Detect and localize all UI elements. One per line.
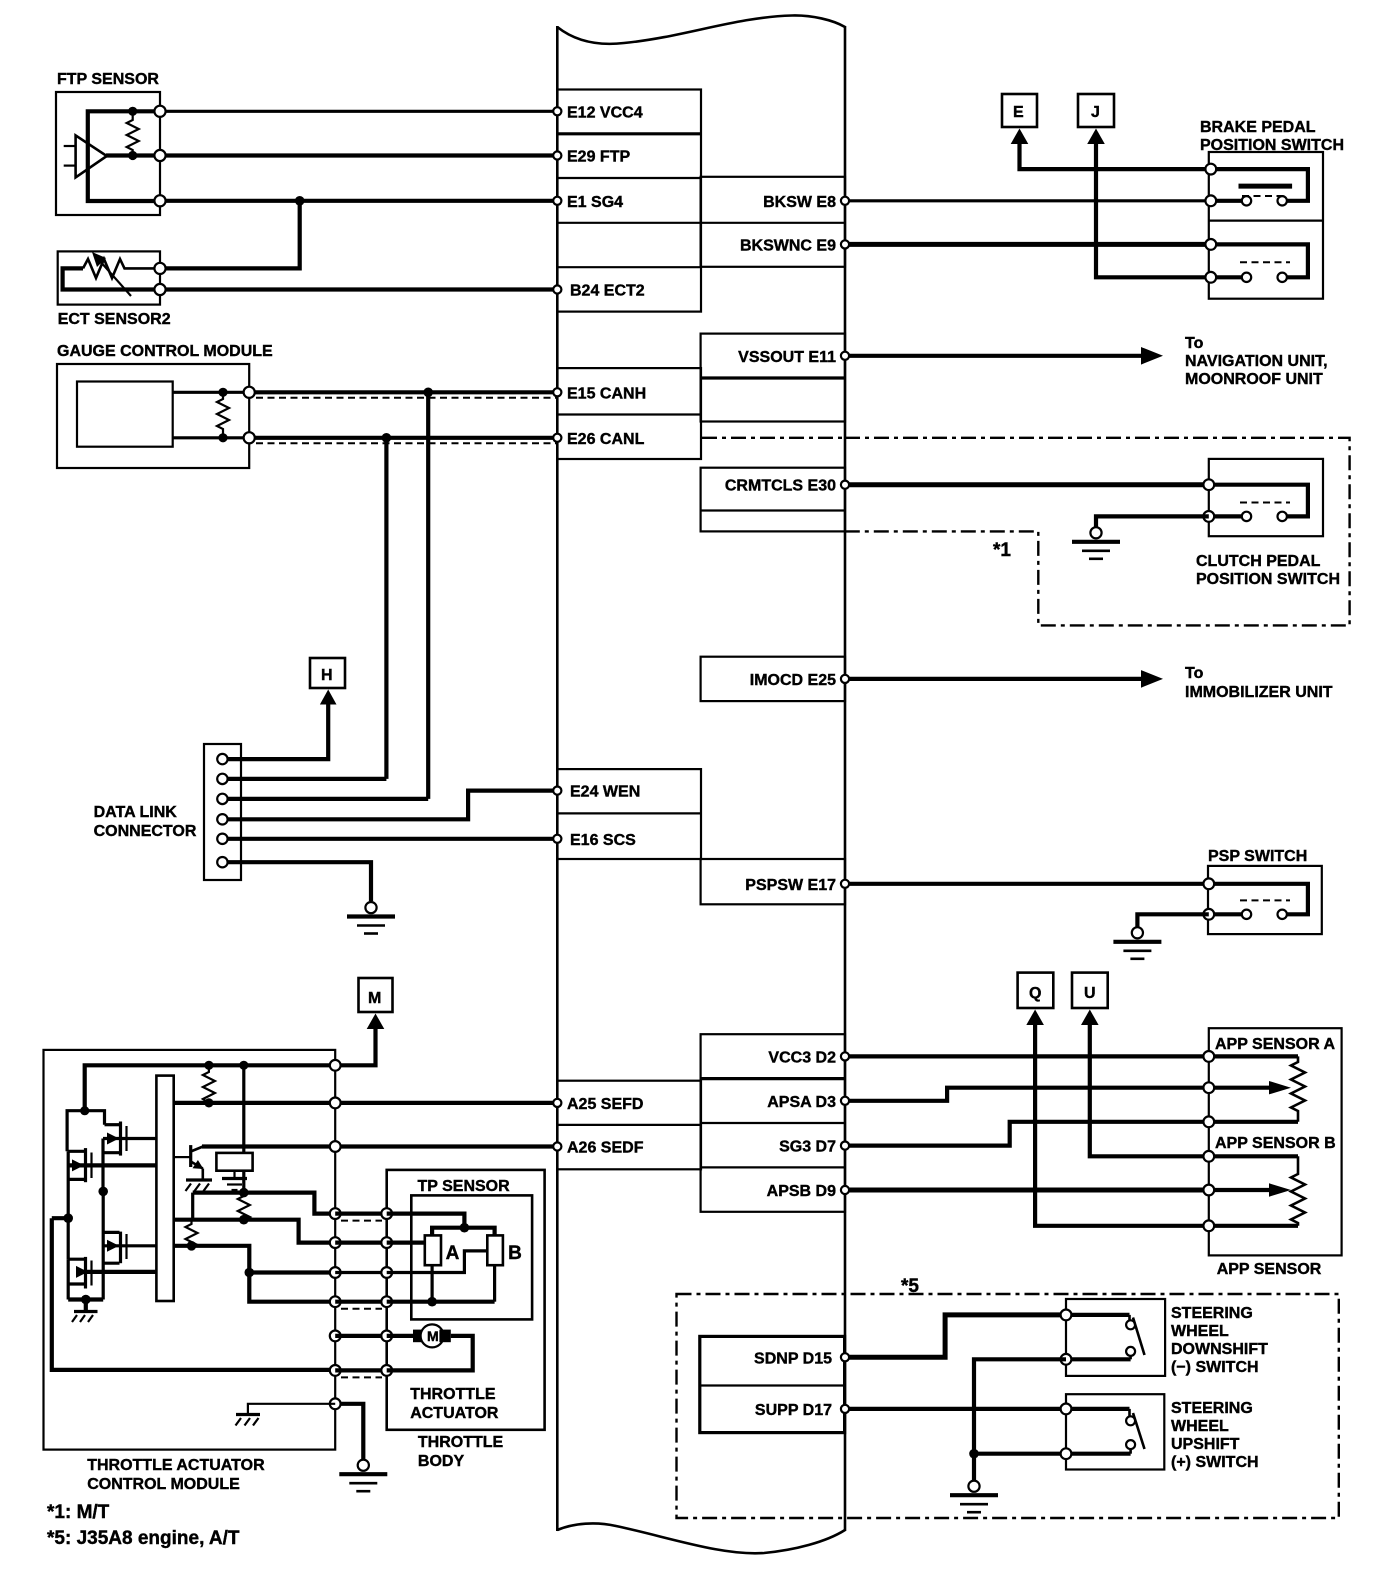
brake switch 2 contact wire: [1211, 275, 1242, 279]
junction dot upper loop: [80, 1106, 89, 1115]
svg-text:H: H: [321, 667, 333, 684]
wire CRMTCLS E30 to clutch switch: [845, 482, 1209, 487]
brake switch 2 dashed blade: [1240, 261, 1290, 263]
APP B supply wire: [1209, 1154, 1298, 1158]
ECM band torn top edge: [557, 15, 845, 43]
wire DLC pin5 to E16 SCS: [222, 837, 557, 841]
wire clutch switch pin2 to ground: [1096, 516, 1209, 527]
svg-text:GAUGE CONTROL MODULE: GAUGE CONTROL MODULE: [57, 343, 273, 360]
brake switch pin 4: [1205, 272, 1216, 283]
arrow up into E: [1011, 129, 1029, 145]
mosfet Q1 gate bar: [125, 1126, 127, 1151]
ECM band torn bottom edge: [557, 1523, 845, 1553]
wire DLC pin1 to H: [222, 702, 328, 759]
APP sensor pin A3: [1203, 1116, 1214, 1127]
PSP switch contact a: [1242, 910, 1251, 919]
arrow up into U: [1081, 1010, 1099, 1026]
dash-dot M/T option outline *1: [845, 438, 1350, 626]
clutch pedal switch box: [1209, 459, 1323, 536]
clutch switch contact a: [1242, 512, 1251, 521]
downshift switch wire pin1: [1066, 1313, 1130, 1317]
pot A bottom stub: [431, 1265, 434, 1302]
APP sensor pin B1: [1203, 1151, 1214, 1162]
wire ECT pin1 up to E1 SG4 node: [160, 201, 300, 269]
transistor Q5 base bar: [189, 1145, 192, 1167]
downshift contact bottom: [1126, 1347, 1135, 1356]
svg-text:(+) SWITCH: (+) SWITCH: [1171, 1454, 1259, 1471]
row separator blank/B24: [557, 266, 701, 268]
APP A low wire: [1209, 1120, 1298, 1124]
mosfet Q2 gate bar: [90, 1153, 92, 1179]
TACM edge pin 4: [330, 1208, 341, 1219]
ground symbol below throttle body: [358, 1460, 369, 1471]
svg-text:To: To: [1185, 665, 1204, 682]
wire E12 VCC4 to FTP pin 1: [160, 110, 557, 113]
stub to chassis ground: [84, 1300, 88, 1312]
junction dot R3 bottom: [187, 1241, 197, 1251]
brake switch divider: [1209, 220, 1323, 222]
wire TACM pin5 to TB pin2: [335, 1240, 387, 1244]
resistor R2: [238, 1193, 250, 1220]
junction dot W6/W7 branch: [245, 1268, 255, 1278]
arrowhead to immobilizer: [1141, 670, 1163, 688]
wire APSA D3 to APP sensor: [845, 1088, 1209, 1101]
wire W6 driver to TACM pin6: [174, 1246, 336, 1273]
DLC pin 1: [217, 754, 227, 764]
throttle motor wire plus: [387, 1334, 413, 1338]
ECM connector band left edge: [556, 26, 559, 1531]
TACM edge pin 8 motor plus: [330, 1331, 341, 1342]
chassis ground 777 under H-bridge: [74, 1310, 98, 1313]
gauge control module box: [57, 364, 249, 468]
mosfet Q2 source stub: [68, 1178, 84, 1181]
junction dot gauge resistor bottom: [218, 433, 227, 442]
dashed shield row1: [341, 1220, 382, 1222]
wire SUPP D17 to upshift switch: [845, 1407, 1066, 1411]
arrow up into M: [367, 1014, 385, 1030]
throttle actuator control module box: [44, 1050, 336, 1450]
svg-text:ECT SENSOR2: ECT SENSOR2: [58, 311, 171, 328]
svg-text:E1 SG4: E1 SG4: [567, 194, 623, 211]
mosfet Q1 source stub: [103, 1151, 120, 1154]
ECM pin circle E29: [553, 151, 561, 159]
upshift contact stub top: [1128, 1409, 1131, 1416]
TACM edge pin 3 A26: [330, 1141, 341, 1152]
ECM pin circle E24: [553, 787, 561, 795]
relay box: [216, 1153, 252, 1171]
ECM pin circle A25: [553, 1099, 561, 1107]
ECM right pin box group VSSOUT: [701, 334, 845, 422]
connector E box: [1002, 94, 1037, 127]
svg-text:BKSW E8: BKSW E8: [763, 194, 836, 211]
wire B24 ECT2 to ECT pin 2: [160, 287, 557, 291]
brake switch pin 2: [1205, 195, 1216, 206]
svg-text:CLUTCH PEDAL: CLUTCH PEDAL: [1196, 553, 1321, 570]
svg-text:IMMOBILIZER UNIT: IMMOBILIZER UNIT: [1185, 684, 1333, 701]
junction dot on E1 SG4 wire: [295, 196, 305, 206]
upshift contact stub bottom: [1129, 1449, 1132, 1454]
TB edge pin 3: [381, 1267, 392, 1278]
ECM pin circle PSPSW: [841, 880, 849, 888]
arrow up into Q: [1026, 1010, 1044, 1026]
PSP switch pin 1: [1203, 878, 1214, 889]
downshift pin 1: [1061, 1310, 1072, 1321]
row separator E29/E1: [557, 177, 701, 179]
ECM pin circle BKSWNC: [841, 240, 849, 248]
brake switch 1 contact a: [1242, 196, 1251, 205]
PSP switch pin 2: [1203, 909, 1214, 920]
ECM pin circle B24: [553, 285, 561, 293]
gauge internal CANH wire: [173, 391, 250, 394]
ECT internal loop wire: [63, 268, 160, 289]
ECM pin circle VSSOUT: [841, 352, 849, 360]
svg-text:E: E: [1013, 104, 1024, 121]
gauge pin 2: [244, 432, 255, 443]
svg-text:WHEEL: WHEEL: [1171, 1418, 1229, 1435]
junction dot ground rail: [81, 1295, 91, 1305]
row separator SG3/APSB: [701, 1166, 845, 1168]
ECT thermistor arrow: [99, 260, 131, 296]
mosfet Q3 source stub: [103, 1262, 119, 1265]
FTP internal supply wire: [88, 111, 160, 201]
wire APSB D9 to APP sensor: [845, 1188, 1209, 1193]
svg-text:FTP SENSOR: FTP SENSOR: [57, 71, 159, 88]
mosfet Q3 gate line to driver: [103, 1244, 156, 1247]
svg-text:NAVIGATION UNIT,: NAVIGATION UNIT,: [1185, 353, 1328, 370]
junction dot W4 relay branch: [239, 1188, 249, 1198]
svg-text:THROTTLE ACTUATOR: THROTTLE ACTUATOR: [87, 1457, 265, 1474]
wire relay box bottom to node W4: [242, 1171, 245, 1193]
wire W5 driver to TACM pin5: [174, 1220, 336, 1243]
wire PSPSW E17 to PSP switch: [845, 882, 1209, 886]
svg-text:MOONROOF UNIT: MOONROOF UNIT: [1185, 371, 1323, 388]
clutch switch internal wire: [1209, 485, 1308, 517]
mosfet Q1 gate line to driver: [103, 1137, 156, 1140]
dash-dot CANL continuation in band: [702, 437, 845, 439]
junction dot rail relay branch: [239, 1061, 248, 1070]
brake switch pin 1: [1205, 164, 1216, 175]
APP A wiper arrowhead: [1269, 1081, 1291, 1094]
ECM right pin box group VCC3/APSA/SG3/APSB: [701, 1034, 845, 1212]
upshift blade: [1133, 1413, 1145, 1449]
svg-text:M: M: [368, 990, 381, 1007]
junction dot gauge resistor top: [218, 388, 227, 397]
transistor Q5 collector: [191, 1147, 203, 1152]
clutch switch contact wire: [1209, 514, 1242, 518]
mosfet Q4 gate bar: [90, 1261, 92, 1286]
APP sensor pin B2: [1203, 1185, 1214, 1196]
FTP pin 1: [154, 106, 165, 117]
wire VSSOUT E11 to navigation: [845, 354, 1150, 358]
mosfet Q2 channel bar: [84, 1148, 87, 1182]
junction dot FTP resistor bottom: [128, 151, 137, 160]
svg-text:E12 VCC4: E12 VCC4: [567, 104, 643, 121]
TACM top supply rail: [85, 1065, 336, 1110]
svg-text:CONTROL MODULE: CONTROL MODULE: [87, 1476, 240, 1493]
mosfet Q3 drain stub: [103, 1231, 119, 1234]
ECT pin 1: [154, 263, 165, 274]
downshift pin 2: [1061, 1354, 1072, 1365]
wire SDNP D15 to downshift switch: [845, 1315, 1066, 1357]
junction dot row4 A: [427, 1297, 437, 1307]
svg-text:*1: *1: [993, 540, 1011, 561]
ECM left pin box group A25/A26: [557, 1081, 701, 1170]
data link connector box: [204, 744, 241, 880]
PSP switch box: [1208, 866, 1322, 934]
ECM pin circle E12: [553, 107, 561, 115]
TB edge pin 5: [381, 1331, 392, 1342]
ECM pin circle A26: [553, 1142, 561, 1150]
svg-text:ACTUATOR: ACTUATOR: [410, 1405, 499, 1422]
ground symbol below DLC: [365, 902, 376, 913]
downshift blade: [1133, 1318, 1145, 1356]
svg-text:*5: J35A8 engine, A/T: *5: J35A8 engine, A/T: [47, 1528, 240, 1549]
APP A wiper wire: [1209, 1086, 1272, 1090]
ECM connector band right edge: [844, 26, 847, 1531]
junction dot TP supply: [460, 1223, 470, 1233]
gauge terminating resistor: [217, 392, 229, 438]
vertical link W4-W5: [191, 1193, 194, 1220]
wire A25 SEFD from driver to ECM: [174, 1101, 558, 1105]
mosfet Q2 drain stub: [68, 1150, 84, 1153]
downshift contact stub bottom: [1129, 1356, 1132, 1359]
svg-text:E24 WEN: E24 WEN: [570, 784, 640, 801]
wire TACM pin6 to TB pin3: [335, 1271, 387, 1274]
brake switch 1 internal wire: [1211, 169, 1308, 201]
ECM pin circle BKSW: [841, 197, 849, 205]
FTP op-amp input stub 1: [64, 145, 76, 147]
svg-text:E26 CANL: E26 CANL: [567, 431, 645, 448]
ECM pin circle CRMTCLS: [841, 481, 849, 489]
upshift switch wire pin1: [1066, 1407, 1130, 1411]
connector Q box: [1018, 973, 1054, 1008]
TACM edge pin 10 ground: [330, 1398, 341, 1409]
row separator SDNP/SUPP: [700, 1384, 845, 1386]
svg-text:DATA LINK: DATA LINK: [94, 804, 178, 821]
APP sensor pin A1: [1203, 1051, 1214, 1062]
ground symbol steering switches: [968, 1481, 979, 1492]
APP A supply wire: [1209, 1054, 1298, 1058]
wire brake switch pin1 to E: [1020, 141, 1211, 169]
junction dot CANH tap: [423, 388, 433, 398]
wire BKSW E8 to brake switch: [845, 199, 1211, 202]
svg-text:TP SENSOR: TP SENSOR: [418, 1178, 511, 1195]
throttle body box: [387, 1170, 545, 1430]
clutch switch pin 1: [1203, 479, 1214, 490]
brake switch 1 dashed gap: [1242, 195, 1288, 197]
wire W7 to TACM pin7: [249, 1273, 335, 1302]
TB edge pin 2: [381, 1237, 392, 1248]
ECM pin circle E16: [553, 835, 561, 843]
mosfet Q1 channel bar: [119, 1122, 122, 1156]
svg-text:APP SENSOR B: APP SENSOR B: [1215, 1135, 1336, 1152]
ECM left pin box group E24/E16: [557, 769, 701, 859]
ECM right pin box group CRMTCLS: [701, 468, 845, 532]
junction dot FTP resistor top: [128, 107, 137, 116]
TACM ground rail: [68, 1297, 103, 1301]
wire TACM pin4 to TB pin1: [335, 1211, 387, 1215]
row separator APSA/SG3: [701, 1122, 845, 1124]
potentiometer B element: [487, 1235, 503, 1265]
APP sensor pin A2: [1203, 1082, 1214, 1093]
mosfet Q4 source stub: [68, 1282, 84, 1285]
left vertical wire to motor return: [52, 1218, 335, 1370]
mosfet Q4 arrow: [76, 1266, 88, 1278]
TB edge pin 1: [381, 1208, 392, 1219]
node wire Q1/Q3 vertical: [102, 1191, 105, 1299]
row separator A25/A26: [557, 1124, 701, 1126]
ECM pin circle SUPP: [841, 1405, 849, 1413]
FTP pin 2: [154, 150, 165, 161]
svg-text:A26 SEDF: A26 SEDF: [567, 1140, 644, 1157]
junction dot R2 bottom: [239, 1215, 249, 1225]
TACM edge pin 7: [330, 1296, 341, 1307]
connector H box: [310, 658, 345, 688]
mosfet Q3 channel bar: [119, 1232, 122, 1264]
TP supply wire from pin1: [387, 1214, 465, 1228]
svg-text:BODY: BODY: [418, 1453, 465, 1470]
svg-text:WHEEL: WHEEL: [1171, 1323, 1229, 1340]
wire E26 CANL to gauge pin 2: [249, 436, 557, 440]
PSP switch internal wire: [1209, 884, 1308, 915]
svg-text:APP SENSOR A: APP SENSOR A: [1215, 1036, 1335, 1053]
svg-text:DOWNSHIFT: DOWNSHIFT: [1171, 1341, 1268, 1358]
ECM pin circle E26: [553, 434, 561, 442]
gauge inner block: [77, 382, 173, 447]
wire TACM pin10 to throttle body ground: [335, 1404, 363, 1460]
pot B bottom stub: [493, 1265, 496, 1302]
body wire Q1 down to node: [101, 1139, 104, 1192]
FTP op-amp input stub 2: [64, 165, 76, 167]
ECM pin circle APSA: [841, 1097, 849, 1105]
svg-text:IMOCD E25: IMOCD E25: [750, 672, 836, 689]
upshift contact bottom: [1126, 1440, 1135, 1449]
steering downshift switch box: [1066, 1299, 1165, 1376]
earth ground under relay box: [222, 1177, 247, 1180]
svg-text:To: To: [1185, 335, 1204, 352]
dashed shield row4: [341, 1308, 382, 1310]
PSP switch dashed blade: [1240, 899, 1290, 901]
svg-text:A25 SEFD: A25 SEFD: [567, 1096, 643, 1113]
arrow up into H: [320, 690, 337, 705]
FTP internal output wire: [106, 153, 160, 157]
clutch switch dashed blade: [1240, 502, 1290, 504]
row separator E15/E26: [557, 413, 701, 415]
brake switch 2 internal wire: [1211, 244, 1308, 277]
mosfet Q3 gate bar: [125, 1234, 127, 1259]
junction dot steering ground bus: [969, 1449, 979, 1459]
wiper A wire from TB pin2: [387, 1240, 425, 1244]
svg-text:SUPP D17: SUPP D17: [755, 1402, 832, 1419]
svg-text:APSA D3: APSA D3: [767, 1094, 836, 1111]
ECM pin circle VCC3: [841, 1052, 849, 1060]
ECM left pin box group E12/E29/E1/blank/B24: [557, 90, 701, 312]
H-bridge upper loop wire: [67, 1111, 104, 1152]
gate driver IC block: [156, 1076, 173, 1301]
dashed shield line CANL: [256, 442, 557, 444]
throttle motor terminal right: [439, 1330, 450, 1343]
FTP internal resistor: [127, 115, 139, 155]
svg-text:B: B: [508, 1243, 522, 1264]
wire E1 SG4 to FTP pin 3: [160, 199, 557, 203]
svg-text:VSSOUT E11: VSSOUT E11: [738, 349, 836, 366]
junction dot CANL tap: [382, 433, 392, 443]
wire TACM pin7 to TB pin4: [335, 1300, 387, 1304]
ground symbol PSP switch: [1132, 927, 1143, 938]
transistor Q5 base line: [174, 1156, 189, 1158]
mosfet Q1 drain stub: [105, 1123, 120, 1126]
row separator VCC3/APSA: [701, 1077, 845, 1080]
TACM edge pin 9 motor minus: [330, 1365, 341, 1376]
row separator E24/E16: [557, 812, 701, 814]
dashed shield motor return: [341, 1376, 382, 1378]
wire IMOCD E25 to immobilizer: [845, 677, 1150, 681]
row separator BKSW/BKSWNC: [701, 222, 845, 224]
upshift pin 1: [1061, 1404, 1072, 1415]
mosfet Q4 drain stub: [68, 1258, 84, 1261]
row separator E1/blank: [557, 222, 701, 224]
ECM right pin box PSPSW: [701, 859, 845, 904]
ECM pin circle SDNP: [841, 1353, 849, 1361]
svg-text:E29 FTP: E29 FTP: [567, 149, 630, 166]
left bus wire Q2 source down: [67, 1151, 70, 1259]
connector M box: [359, 978, 393, 1012]
resistor R1: [203, 1065, 215, 1103]
connector J box: [1078, 94, 1114, 127]
transistor Q5 emitter: [191, 1162, 203, 1169]
brake switch 1 blade bar: [1239, 184, 1293, 189]
wire BKSWNC E9 to brake switch: [845, 242, 1211, 247]
wire DLC pin3 to CANH tap: [222, 797, 428, 801]
internal ground wire from TACM pin10: [248, 1404, 335, 1414]
svg-text:M: M: [427, 1328, 439, 1344]
svg-text:Q: Q: [1029, 985, 1041, 1002]
row separator E12/E29: [557, 132, 701, 135]
svg-text:CONNECTOR: CONNECTOR: [94, 823, 197, 840]
mosfet Q4 channel bar: [84, 1257, 87, 1289]
ECT SENSOR2 box: [58, 251, 160, 304]
TACM edge pin 5: [330, 1237, 341, 1248]
upshift contact top: [1126, 1416, 1135, 1425]
svg-text:*1: M/T: *1: M/T: [47, 1502, 110, 1523]
ECM right pin box group BKSW/BKSWNC: [701, 177, 845, 267]
relay box earth ground stub: [233, 1171, 235, 1178]
brake switch 2 contact b: [1278, 273, 1287, 282]
wire DLC pin6 to ground: [222, 862, 371, 901]
brake switch pin 3: [1205, 239, 1216, 250]
FTP op-amp triangle: [76, 135, 107, 177]
arrow up into J: [1087, 129, 1105, 145]
ECM pin circle APSB: [841, 1186, 849, 1194]
svg-text:THROTTLE: THROTTLE: [410, 1386, 496, 1403]
ECT pin 2: [154, 284, 165, 295]
arrowhead to navigation: [1141, 347, 1163, 365]
svg-text:J: J: [1091, 104, 1100, 121]
APP B wiper arrowhead: [1269, 1183, 1291, 1196]
svg-text:UPSHIFT: UPSHIFT: [1171, 1436, 1240, 1453]
downshift contact top: [1126, 1320, 1135, 1329]
left bus Q4 down to ground rail: [67, 1259, 70, 1299]
ground symbol clutch switch: [1090, 527, 1101, 538]
APP B low wire: [1209, 1224, 1298, 1228]
APP sensor pin B3: [1203, 1220, 1214, 1231]
FTP sensor box: [56, 92, 160, 215]
svg-text:APP SENSOR: APP SENSOR: [1217, 1261, 1322, 1278]
TB edge pin 4: [381, 1296, 392, 1307]
junction dot rail R1: [204, 1061, 213, 1070]
clutch switch pin 2: [1203, 511, 1214, 522]
wire tap to motor-minus rail: [52, 1216, 68, 1220]
